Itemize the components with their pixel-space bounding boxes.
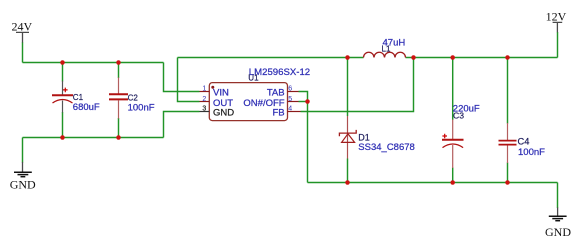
pin 1 VIN	[200, 91, 210, 93]
svg-text:C3: C3	[453, 111, 464, 121]
svg-text:FB: FB	[272, 108, 284, 119]
wire top-left bus	[23, 62, 164, 64]
capacitor C2	[109, 78, 155, 119]
wire left gnd drop	[22, 138, 24, 163]
svg-text:C4: C4	[518, 136, 530, 146]
junction node C3 gnd	[450, 180, 455, 185]
wire FB	[301, 58, 414, 112]
junction node D1 gnd	[345, 180, 350, 185]
wire D1 bottom	[347, 159, 349, 183]
IC U1 LM2596SX-12	[200, 67, 311, 121]
junction node TAB/ON-OFF	[305, 99, 310, 104]
junction node C4 gnd	[505, 180, 510, 185]
wire VIN	[164, 63, 200, 92]
wire 12V drop	[557, 32, 559, 58]
inductor L1 47uH	[364, 37, 406, 57]
ground symbol left	[10, 162, 36, 191]
capacitor C3	[442, 104, 480, 168]
svg-text:24V: 24V	[12, 20, 33, 34]
svg-text:GND: GND	[213, 108, 234, 119]
wire C4 bottom	[507, 163, 509, 183]
junction node C2 bottom	[116, 135, 121, 140]
pin 4 FB	[288, 111, 301, 113]
wire right gnd bus	[308, 182, 558, 184]
pin 6 TAB	[288, 91, 299, 93]
wire C2 bottom	[118, 118, 120, 138]
junction node switch/diode	[345, 55, 350, 60]
wire C2 top	[118, 63, 120, 79]
svg-text:GND: GND	[545, 225, 571, 239]
junction node FB/output	[411, 55, 416, 60]
svg-text:6: 6	[288, 86, 292, 93]
wire C1 bottom	[62, 112, 64, 138]
wire OUT to switch node	[178, 58, 200, 102]
capacitor C4	[499, 123, 546, 163]
wire GND pin3	[164, 112, 200, 138]
wire D1 top	[347, 58, 349, 117]
junction node C1 top	[60, 60, 65, 65]
wire C4 top	[507, 58, 509, 124]
svg-text:100nF: 100nF	[128, 102, 155, 113]
wire C3 bottom	[452, 168, 454, 183]
wire TAB/ON-OFF to gnd	[307, 102, 309, 183]
power flag 12V	[546, 10, 567, 33]
wire TAB	[299, 92, 308, 102]
pin 2 OUT	[200, 101, 210, 103]
svg-text:680uF: 680uF	[73, 102, 100, 113]
svg-text:100nF: 100nF	[518, 147, 545, 158]
wire C1 top	[62, 63, 64, 82]
ground symbol right	[545, 208, 571, 239]
svg-text:C1: C1	[73, 93, 84, 102]
wire 24V drop	[22, 43, 24, 63]
svg-text:GND: GND	[10, 177, 36, 191]
pin 5 ON#/OFF	[288, 101, 299, 103]
svg-text:2: 2	[202, 96, 206, 103]
diode D1 SS34 schottky	[339, 116, 414, 159]
svg-text:C2: C2	[128, 93, 139, 102]
junction node C4 top	[505, 55, 510, 60]
svg-text:D1: D1	[358, 133, 370, 143]
svg-text:1: 1	[202, 86, 206, 93]
junction node C1 bottom	[60, 135, 65, 140]
junction node C2 top	[116, 60, 121, 65]
wire output top bus	[178, 57, 558, 59]
wire C3 top	[452, 58, 454, 120]
svg-text:5: 5	[288, 96, 292, 103]
wire bottom-left gnd bus	[23, 137, 164, 139]
wire right gnd drop	[557, 183, 559, 209]
junction node C3 top	[450, 55, 455, 60]
svg-text:12V: 12V	[546, 10, 567, 24]
svg-text:3: 3	[202, 106, 206, 113]
svg-text:SS34_C8678: SS34_C8678	[358, 142, 415, 153]
svg-text:U1: U1	[248, 74, 259, 83]
svg-text:4: 4	[288, 106, 292, 113]
wire ON/OFF	[299, 101, 308, 103]
capacitor C1	[52, 81, 100, 113]
pin 3 GND	[200, 111, 210, 113]
power flag 24V	[12, 20, 33, 44]
